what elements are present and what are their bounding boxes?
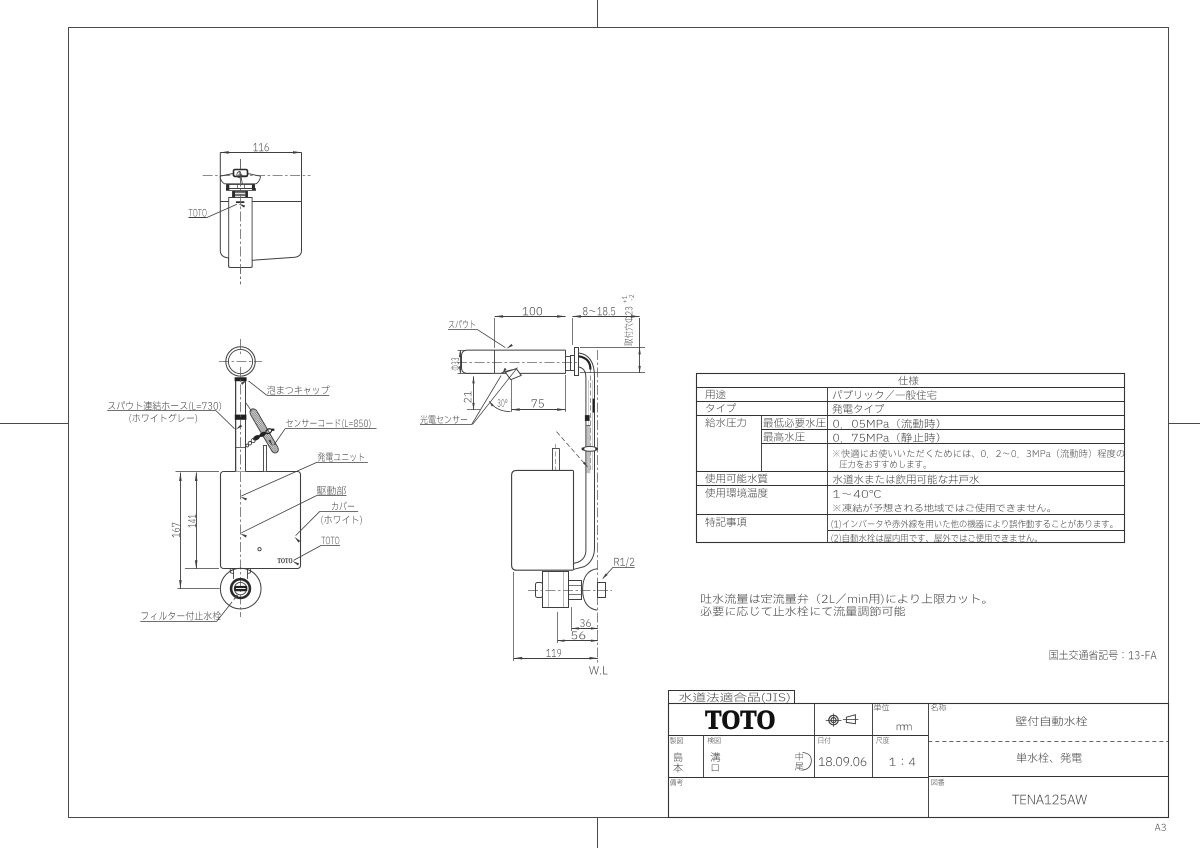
front view sensor cord hatched band — [250, 409, 278, 453]
TOTO logo — [706, 711, 775, 729]
projection symbol circle — [829, 715, 838, 724]
label TOTO on box — [321, 537, 339, 545]
top view sensor housing — [234, 170, 248, 177]
front view generator unit box — [221, 472, 301, 569]
side view dim 56 — [558, 640, 598, 642]
side view box — [512, 470, 573, 570]
frame center tick top — [597, 0, 599, 27]
side view dim 119 — [514, 658, 598, 660]
front view spout ring outer — [226, 347, 255, 376]
side view hidden hose diagonal — [557, 432, 588, 467]
side view box inlet pipe — [552, 449, 554, 471]
title block outer — [669, 704, 1169, 818]
front view dim 141 text — [188, 514, 196, 527]
spec table usable water — [705, 474, 767, 484]
top view flange band 2 — [227, 189, 256, 191]
side view phi23 dim line — [639, 318, 641, 373]
side view spout end face — [565, 350, 567, 373]
front view TOTO logo on box — [277, 558, 292, 563]
projection symbol cone — [846, 715, 855, 724]
top view TOTO mark on column — [236, 201, 245, 203]
side view elbow outer — [578, 353, 595, 378]
front view valve inner circle — [234, 582, 246, 594]
top view body cover outline — [220, 152, 301, 267]
title block col proj right — [872, 703, 874, 736]
front view axis centerline — [240, 367, 242, 617]
label R1/2 — [614, 557, 634, 567]
side view dim 36 — [572, 628, 598, 630]
top view dimension 116 text — [253, 143, 268, 151]
front view dim 167 text — [172, 523, 180, 538]
side view dim 21 — [473, 376, 475, 410]
title block col name left — [928, 703, 930, 818]
spec table row line between notes — [828, 530, 1124, 532]
top view vertical centerline — [240, 159, 242, 284]
front view foam cap black band — [235, 377, 247, 381]
top view TOTO leader — [206, 204, 237, 218]
side view pipe gray hose segment — [586, 426, 590, 473]
side view pipe black segment right — [593, 399, 595, 413]
title block kenzu label — [708, 737, 721, 744]
title block name row dashed — [928, 741, 1168, 743]
spec table outer frame — [697, 374, 1125, 543]
front view cord clip dark parts — [252, 434, 261, 442]
spec table temperature — [705, 488, 767, 498]
title block name row solid — [928, 776, 1168, 778]
side view dim 75 — [511, 409, 565, 411]
top view centerline over column — [240, 159, 242, 284]
side view pipe centerline — [590, 368, 592, 470]
side view flange plate 2 — [575, 348, 579, 376]
label generator unit — [318, 452, 365, 461]
title block tan-i label — [874, 704, 889, 711]
title block row line 2 — [668, 777, 928, 779]
side view spout neck — [566, 356, 571, 358]
side view sensor window — [501, 370, 513, 374]
top view body top edge — [220, 201, 301, 203]
spec table row line under yoto — [696, 401, 1124, 403]
top view TOTO label — [189, 209, 207, 217]
label spout — [449, 320, 475, 329]
label foam cap — [267, 386, 329, 395]
title block zuban label — [932, 779, 945, 786]
front view LED dot — [258, 548, 261, 551]
label cover — [332, 502, 354, 511]
front view valve slot — [234, 586, 247, 591]
front view vertical centerline — [240, 339, 242, 356]
front view hose black band — [235, 415, 247, 420]
side view wall line W.L — [597, 350, 599, 664]
label photo sensor — [420, 415, 467, 424]
side view wall nipple — [598, 583, 606, 598]
side view dim 8-18.5 — [572, 316, 639, 318]
front view mounting foot — [233, 569, 235, 579]
spec table type — [706, 403, 736, 412]
top view aerator ring — [233, 192, 248, 198]
front view filter stop valve outer circle — [220, 568, 261, 609]
top view spout flare — [220, 174, 260, 184]
spec table special notes label — [706, 517, 747, 527]
spec table header — [898, 376, 918, 386]
side view escutcheon dome — [583, 569, 598, 610]
title block product name2 — [1017, 753, 1082, 763]
title block date — [819, 757, 867, 766]
title block col seizu — [703, 736, 705, 778]
top view spout column — [229, 198, 252, 268]
frame center tick bottom — [597, 818, 599, 848]
label sensor cord — [286, 419, 370, 428]
front view sensor cord wire — [246, 403, 252, 412]
side view 30deg arc — [490, 402, 511, 412]
front view dim 167 — [180, 473, 182, 589]
title block product name — [1016, 716, 1088, 726]
side view spout body — [462, 350, 566, 373]
spec table row line under temperature — [696, 514, 1124, 516]
title block part number — [1012, 795, 1087, 805]
front view valve middle ring — [231, 579, 250, 598]
title block shakudo label — [876, 737, 889, 744]
spec table supply pressure — [705, 418, 745, 428]
title block col date left — [814, 736, 816, 778]
label spout hose — [108, 401, 221, 411]
label W.L — [589, 666, 607, 674]
frame center tick left — [0, 423, 68, 425]
side view elbow hose bend bold — [579, 356, 591, 369]
title block seizu label — [670, 737, 683, 744]
front view sensor cord lower tube — [264, 445, 267, 471]
title block scale — [889, 758, 915, 766]
note MLIT code — [1050, 650, 1157, 660]
spec table max pressure — [764, 432, 805, 442]
spec table pressure note line1 — [833, 449, 1124, 458]
spec table row line under type — [696, 415, 1124, 417]
side view dim phi33 — [460, 350, 462, 373]
side view pipe black segment left — [585, 415, 590, 421]
title block drafter name — [674, 752, 683, 761]
top view horizontal centerline — [203, 175, 311, 177]
side view valve centerline — [528, 590, 612, 592]
front view dim 167 extension lines — [176, 471, 220, 473]
top view water outlet curl — [237, 171, 242, 178]
spec table freeze note — [833, 504, 1050, 513]
title block JIS tab — [669, 691, 795, 704]
spec table pressure note line2 — [840, 460, 926, 468]
sheet size label A3 — [1155, 824, 1166, 831]
side view sensor beam line — [473, 368, 518, 425]
title block biko label — [670, 779, 683, 786]
title block meisho label — [931, 704, 946, 711]
note flow rate line1 — [701, 594, 986, 605]
title block checker name — [711, 752, 721, 762]
title block col scale left — [872, 736, 874, 778]
front view dim 141 — [196, 473, 198, 569]
spec table col divider sub — [761, 415, 763, 471]
spec table row line under water quality — [696, 485, 1124, 487]
side view valve hex nut — [569, 581, 582, 600]
side view mounting hole dim text — [624, 307, 633, 346]
front view spout ring crosshair — [219, 361, 262, 363]
side view valve cap — [536, 583, 543, 598]
title block mm — [897, 725, 912, 731]
top view flange band 1 — [227, 185, 255, 189]
front view spout ring inner — [228, 349, 252, 373]
spec table row line under header — [696, 387, 1124, 389]
title block row line 1 — [668, 735, 928, 737]
spec table col divider value — [827, 387, 829, 542]
spec table note 2 — [831, 534, 1037, 543]
side view flange plate 1 — [571, 356, 575, 371]
side view valve body — [543, 572, 569, 608]
spec table row line under min pressure — [761, 429, 1124, 431]
title block hizuke label — [819, 737, 831, 744]
note flow rate line2 — [701, 606, 905, 616]
side view pipe clamp ring — [583, 447, 597, 452]
spec table row line under pressure note — [696, 471, 1124, 473]
side view spout joint line — [494, 350, 496, 373]
side view dim 100 — [495, 316, 566, 318]
spec table yoto — [706, 390, 726, 399]
title block col TOTO right — [814, 703, 816, 736]
frame center tick right — [1169, 423, 1200, 425]
spec table note 1 — [831, 520, 1112, 529]
front view cord chain rings — [251, 439, 255, 443]
title block stamp — [796, 752, 803, 760]
side view spout centerline — [457, 362, 578, 364]
spec table row line under max pressure — [761, 443, 1124, 445]
label filter stop valve — [142, 611, 221, 620]
front view hose joint line — [235, 447, 246, 449]
top view dimension 116 line — [220, 152, 301, 154]
front view hose tube — [235, 377, 246, 472]
label drive unit — [317, 486, 346, 495]
side view down pipe — [574, 378, 586, 564]
side view box right edge — [573, 470, 575, 570]
